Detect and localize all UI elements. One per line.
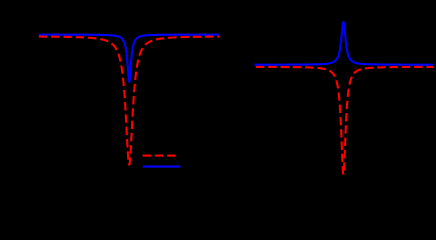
legend blue solid sample line <box>143 166 181 168</box>
right plot blue solid narrow peak curve <box>255 22 434 65</box>
legend red dashed sample line <box>143 155 180 157</box>
right plot red dashed deep dip curve <box>255 67 434 174</box>
left plot red dashed broad absorption dip curve <box>39 37 220 165</box>
left plot blue solid absorption dip curve <box>39 35 220 82</box>
